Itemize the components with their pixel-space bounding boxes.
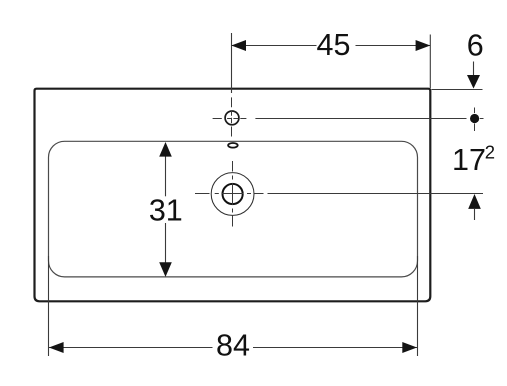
dimension 31: dimension line upper segment: [165, 155, 167, 196]
reference dot tick up: [474, 108, 476, 114]
reference dot tick right: [480, 118, 484, 120]
reference dot tick down: [474, 124, 476, 132]
svg-text:31: 31: [149, 194, 183, 228]
dimension 45: left extension line (faucet centerline above basin): [231, 33, 233, 93]
dimension 45: right extension line: [429, 35, 431, 89]
dimension 45: dimension line left segment: [231, 45, 316, 47]
dimension 84: dimension line right segment: [253, 347, 417, 349]
faucet centerline horizontal long segment to reference dot: [255, 118, 466, 120]
dimension 6: top edge extension line: [432, 89, 483, 91]
svg-text:84: 84: [216, 329, 250, 363]
dimension 31: up arrowhead: [159, 142, 172, 157]
faucet centerline reference dot: [470, 114, 479, 123]
dimension 84: left extension line: [48, 256, 50, 356]
dimension 6: arrow stem: [473, 62, 475, 78]
dimension 84: right extension line: [417, 256, 419, 356]
dimension 84: dimension line left segment: [49, 347, 213, 349]
drain centerline vertical dashes: [232, 161, 234, 172]
dimension 84: left arrowhead: [49, 342, 64, 353]
dimension 84: right arrowhead: [402, 342, 417, 353]
dimension 45: dimension line right segment: [356, 45, 431, 47]
faucet hole centerline vertical dashes: [231, 97, 233, 107]
dimension 31: dimension line lower segment: [165, 223, 167, 264]
dimension 45: right arrowhead: [416, 40, 431, 51]
drain inner circle: [223, 184, 243, 204]
svg-text:6: 6: [467, 29, 484, 63]
dimension 31: down arrowhead: [159, 262, 172, 277]
svg-text:17: 17: [452, 143, 486, 177]
dimension 45: left arrowhead: [231, 40, 246, 51]
svg-text:2: 2: [485, 141, 495, 162]
faucet hole: [225, 111, 239, 125]
faucet hole centerline horizontal dashes: [213, 118, 222, 120]
overflow slot: [228, 143, 238, 148]
basin outer body: [35, 89, 431, 302]
dimension 17: up arrowhead on drain centerline: [468, 194, 481, 209]
drain centerline horizontal dashes: [195, 193, 210, 195]
svg-text:45: 45: [317, 28, 351, 62]
drain outer circle: [211, 173, 254, 216]
basin bowl inner outline: [49, 141, 418, 277]
drain centerline long segment crossing basin edge to arrow: [268, 193, 484, 195]
dimension 6: down arrowhead: [467, 75, 480, 89]
dimension 17: arrow stem below: [474, 209, 476, 220]
